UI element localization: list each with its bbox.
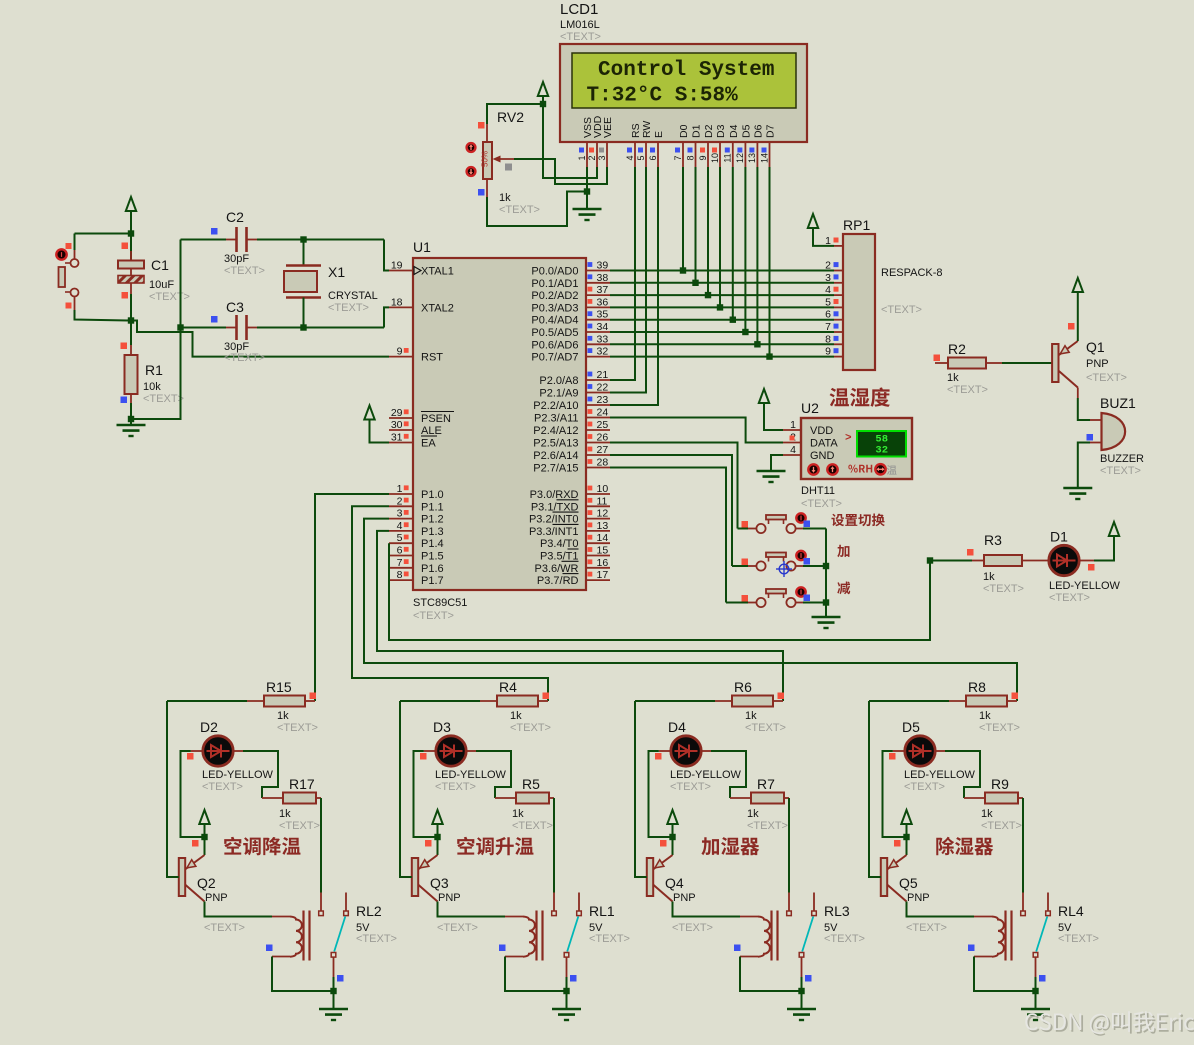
svg-text:1k: 1k	[947, 372, 959, 384]
svg-text:<TEXT>: <TEXT>	[979, 722, 1020, 734]
svg-text:<TEXT>: <TEXT>	[983, 583, 1024, 595]
svg-text:R5: R5	[522, 776, 540, 792]
svg-text:4: 4	[790, 444, 796, 456]
svg-text:LED-YELLOW: LED-YELLOW	[904, 769, 976, 781]
svg-text:4: 4	[825, 284, 831, 296]
svg-text:P0.1/AD1: P0.1/AD1	[531, 278, 578, 290]
svg-text:14: 14	[597, 532, 609, 544]
svg-text:<TEXT>: <TEXT>	[745, 722, 786, 734]
svg-text:<TEXT>: <TEXT>	[947, 384, 988, 396]
svg-text:T:32°C S:58%: T:32°C S:58%	[587, 85, 739, 108]
svg-text:5: 5	[397, 532, 403, 544]
svg-text:<TEXT>: <TEXT>	[670, 781, 711, 793]
svg-text:RV2: RV2	[497, 109, 524, 125]
svg-text:Q4: Q4	[665, 875, 684, 891]
svg-text:RESPACK-8: RESPACK-8	[881, 267, 943, 279]
svg-text:<TEXT>: <TEXT>	[801, 498, 842, 510]
svg-text:2: 2	[587, 155, 597, 160]
svg-text:<TEXT>: <TEXT>	[1086, 372, 1127, 384]
svg-text:C3: C3	[226, 299, 244, 315]
svg-text:P1.6: P1.6	[421, 563, 444, 575]
svg-text:D1: D1	[1050, 529, 1068, 545]
svg-text:LCD1: LCD1	[560, 1, 598, 18]
svg-text:LED-YELLOW: LED-YELLOW	[670, 769, 742, 781]
svg-text:Q5: Q5	[899, 875, 918, 891]
svg-text:36: 36	[597, 296, 609, 308]
svg-text:BUZZER: BUZZER	[1100, 453, 1144, 465]
svg-text:34: 34	[597, 321, 609, 333]
svg-text:12: 12	[597, 508, 609, 520]
svg-text:9: 9	[825, 346, 831, 358]
svg-text:<TEXT>: <TEXT>	[437, 922, 478, 934]
svg-text:13: 13	[597, 520, 609, 532]
svg-text:1k: 1k	[510, 710, 522, 722]
svg-text:<TEXT>: <TEXT>	[356, 933, 397, 945]
svg-text:PNP: PNP	[1086, 358, 1109, 370]
svg-text:10uF: 10uF	[149, 279, 174, 291]
svg-text:22: 22	[597, 382, 609, 394]
svg-text:CRYSTAL: CRYSTAL	[328, 290, 378, 302]
svg-text:LED-YELLOW: LED-YELLOW	[1049, 580, 1121, 592]
svg-text:PSEN: PSEN	[421, 413, 451, 425]
svg-text:PNP: PNP	[673, 892, 696, 904]
svg-text:<TEXT>: <TEXT>	[672, 922, 713, 934]
svg-text:D1: D1	[691, 124, 703, 138]
svg-text:<TEXT>: <TEXT>	[747, 820, 788, 832]
svg-text:U1: U1	[413, 239, 431, 255]
svg-text:5: 5	[636, 155, 646, 160]
svg-text:<TEXT>: <TEXT>	[1049, 592, 1090, 604]
svg-text:<TEXT>: <TEXT>	[824, 933, 865, 945]
svg-text:D4: D4	[728, 124, 740, 138]
svg-text:R6: R6	[734, 679, 752, 695]
svg-text:R9: R9	[991, 776, 1009, 792]
svg-text:P2.6/A14: P2.6/A14	[533, 450, 578, 462]
svg-text:30: 30	[391, 419, 403, 431]
svg-text:23: 23	[597, 394, 609, 406]
svg-text:D6: D6	[752, 124, 764, 138]
svg-text:Q3: Q3	[430, 875, 449, 891]
svg-text:DHT11: DHT11	[801, 485, 835, 497]
svg-text:<TEXT>: <TEXT>	[435, 781, 476, 793]
svg-text:P2.4/A12: P2.4/A12	[533, 425, 578, 437]
svg-text:>: >	[845, 433, 852, 445]
svg-text:<TEXT>: <TEXT>	[510, 722, 551, 734]
svg-text:28: 28	[597, 457, 609, 469]
svg-text:<TEXT>: <TEXT>	[202, 781, 243, 793]
svg-text:4: 4	[625, 155, 635, 160]
svg-text:14: 14	[759, 153, 769, 163]
svg-text:<TEXT>: <TEXT>	[1100, 465, 1141, 477]
svg-text:9: 9	[698, 155, 708, 160]
svg-text:2: 2	[397, 495, 403, 507]
svg-text:P3.4/T0: P3.4/T0	[540, 538, 579, 550]
svg-text:P3.5/T1: P3.5/T1	[540, 551, 579, 563]
svg-text:PNP: PNP	[205, 892, 228, 904]
svg-text:Q2: Q2	[197, 875, 216, 891]
svg-text:21: 21	[597, 369, 609, 381]
svg-text:<TEXT>: <TEXT>	[149, 291, 190, 303]
svg-text:R2: R2	[948, 341, 966, 357]
svg-text:3: 3	[397, 508, 403, 520]
svg-text:1k: 1k	[747, 808, 759, 820]
svg-text:6: 6	[825, 309, 831, 321]
svg-text:33: 33	[597, 333, 609, 345]
svg-text:6: 6	[397, 545, 403, 557]
svg-text:P0.7/AD7: P0.7/AD7	[531, 352, 578, 364]
svg-text:9: 9	[397, 346, 403, 358]
svg-text:X1: X1	[328, 264, 345, 280]
svg-text:P0.5/AD5: P0.5/AD5	[531, 327, 578, 339]
svg-text:D5: D5	[740, 124, 752, 138]
svg-text:R17: R17	[289, 776, 315, 792]
svg-text:4: 4	[397, 520, 403, 532]
svg-text:<TEXT>: <TEXT>	[512, 820, 553, 832]
svg-text:D4: D4	[668, 719, 686, 735]
svg-text:DATA: DATA	[810, 438, 838, 450]
svg-text:D3: D3	[433, 719, 451, 735]
svg-text:P0.2/AD2: P0.2/AD2	[531, 290, 578, 302]
svg-text:R7: R7	[757, 776, 775, 792]
svg-text:P2.7/A15: P2.7/A15	[533, 463, 578, 475]
svg-text:13: 13	[747, 153, 757, 163]
svg-text:R15: R15	[266, 679, 292, 695]
svg-text:P1.5: P1.5	[421, 551, 444, 563]
svg-text:8: 8	[825, 333, 831, 345]
svg-text:RL1: RL1	[589, 903, 615, 919]
svg-text:P0.3/AD3: P0.3/AD3	[531, 302, 578, 314]
svg-text:<TEXT>: <TEXT>	[413, 610, 454, 622]
svg-text:VEE: VEE	[602, 117, 614, 138]
svg-text:RL4: RL4	[1058, 903, 1084, 919]
svg-text:31: 31	[391, 432, 403, 444]
svg-text:P1.1: P1.1	[421, 501, 444, 513]
svg-text:E: E	[653, 131, 665, 138]
svg-text:5: 5	[825, 296, 831, 308]
svg-text:EA: EA	[421, 438, 436, 450]
svg-text:8: 8	[397, 569, 403, 581]
svg-text:P2.5/A13: P2.5/A13	[533, 438, 578, 450]
svg-text:50%: 50%	[481, 151, 490, 167]
svg-text:D5: D5	[902, 719, 920, 735]
svg-text:RW: RW	[641, 121, 653, 138]
svg-text:1k: 1k	[745, 710, 757, 722]
svg-text:P1.7: P1.7	[421, 575, 444, 587]
svg-text:10: 10	[597, 483, 609, 495]
svg-text:25: 25	[597, 419, 609, 431]
svg-text:LM016L: LM016L	[560, 19, 600, 31]
svg-text:24: 24	[597, 407, 609, 419]
svg-text:LED-YELLOW: LED-YELLOW	[435, 769, 507, 781]
svg-text:1k: 1k	[277, 710, 289, 722]
svg-text:P3.6/WR: P3.6/WR	[534, 563, 578, 575]
svg-text:ALE: ALE	[421, 425, 442, 437]
svg-text:26: 26	[597, 432, 609, 444]
svg-text:D0: D0	[678, 124, 690, 138]
svg-text:<TEXT>: <TEXT>	[499, 204, 540, 216]
svg-text:R4: R4	[499, 679, 517, 695]
svg-text:38: 38	[597, 272, 609, 284]
svg-text:1: 1	[577, 155, 587, 160]
svg-text:<TEXT>: <TEXT>	[906, 922, 947, 934]
svg-text:STC89C51: STC89C51	[413, 597, 467, 609]
svg-text:P3.7/RD: P3.7/RD	[537, 575, 579, 587]
svg-text:8: 8	[685, 155, 695, 160]
svg-text:D2: D2	[200, 719, 218, 735]
svg-text:D2: D2	[703, 124, 715, 138]
svg-text:P3.0/RXD: P3.0/RXD	[530, 489, 579, 501]
svg-text:<TEXT>: <TEXT>	[143, 393, 184, 405]
svg-text:Q1: Q1	[1086, 339, 1105, 355]
svg-text:12: 12	[735, 153, 745, 163]
svg-text:LED-YELLOW: LED-YELLOW	[202, 769, 274, 781]
svg-text:<TEXT>: <TEXT>	[981, 820, 1022, 832]
svg-text:R1: R1	[145, 362, 163, 378]
svg-text:P3.1/TXD: P3.1/TXD	[531, 501, 579, 513]
svg-text:XTAL1: XTAL1	[421, 266, 454, 278]
svg-text:37: 37	[597, 284, 609, 296]
svg-text:<TEXT>: <TEXT>	[277, 722, 318, 734]
svg-text:P3.3/INT1: P3.3/INT1	[529, 526, 579, 538]
svg-text:11: 11	[723, 153, 733, 162]
svg-text:GND: GND	[810, 450, 835, 462]
svg-text:BUZ1: BUZ1	[1100, 395, 1136, 411]
svg-text:1k: 1k	[981, 808, 993, 820]
svg-text:7: 7	[825, 321, 831, 333]
svg-text:RL3: RL3	[824, 903, 850, 919]
svg-text:11: 11	[597, 495, 608, 507]
svg-text:R8: R8	[968, 679, 986, 695]
svg-text:29: 29	[391, 407, 403, 419]
svg-text:1k: 1k	[983, 571, 995, 583]
svg-text:PNP: PNP	[907, 892, 930, 904]
svg-text:P1.0: P1.0	[421, 489, 444, 501]
svg-text:39: 39	[597, 260, 609, 272]
svg-text:<TEXT>: <TEXT>	[279, 820, 320, 832]
svg-text:P2.1/A9: P2.1/A9	[539, 388, 578, 400]
svg-text:C1: C1	[151, 257, 169, 273]
svg-text:6: 6	[648, 155, 658, 160]
svg-text:P2.0/A8: P2.0/A8	[539, 375, 578, 387]
svg-text:R3: R3	[984, 532, 1002, 548]
svg-text:3: 3	[597, 155, 607, 160]
svg-text:P0.6/AD6: P0.6/AD6	[531, 339, 578, 351]
svg-text:1k: 1k	[279, 808, 291, 820]
svg-text:P2.3/A11: P2.3/A11	[534, 413, 578, 425]
svg-text:PNP: PNP	[438, 892, 461, 904]
svg-text:<TEXT>: <TEXT>	[328, 302, 369, 314]
svg-text:<TEXT>: <TEXT>	[224, 265, 265, 277]
svg-text:1: 1	[397, 483, 403, 495]
svg-text:D3: D3	[715, 124, 727, 138]
svg-text:<TEXT>: <TEXT>	[1058, 933, 1099, 945]
svg-text:1k: 1k	[512, 808, 524, 820]
svg-text:18: 18	[391, 296, 403, 308]
svg-text:D7: D7	[765, 124, 777, 138]
svg-text:2: 2	[825, 260, 831, 272]
svg-text:U2: U2	[801, 400, 819, 416]
svg-text:RP1: RP1	[843, 217, 870, 233]
svg-text:<TEXT>: <TEXT>	[204, 922, 245, 934]
svg-text:7: 7	[397, 557, 403, 569]
svg-text:Control System: Control System	[598, 59, 774, 82]
svg-text:<TEXT>: <TEXT>	[224, 352, 265, 364]
svg-text:30pF: 30pF	[224, 253, 249, 265]
svg-text:32: 32	[875, 445, 888, 457]
svg-text:35: 35	[597, 309, 609, 321]
svg-text:<TEXT>: <TEXT>	[560, 31, 601, 43]
svg-text:P1.3: P1.3	[421, 526, 444, 538]
svg-text:P3.2/INT0: P3.2/INT0	[529, 514, 579, 526]
svg-text:10: 10	[710, 153, 720, 163]
svg-text:10k: 10k	[143, 381, 161, 393]
svg-text:<TEXT>: <TEXT>	[589, 933, 630, 945]
svg-text:P2.2/A10: P2.2/A10	[533, 400, 578, 412]
svg-text:RST: RST	[421, 352, 443, 364]
svg-text:<TEXT>: <TEXT>	[904, 781, 945, 793]
svg-text:1k: 1k	[499, 192, 511, 204]
svg-text:P1.4: P1.4	[421, 538, 444, 550]
svg-text:15: 15	[597, 545, 609, 557]
svg-text:3: 3	[825, 272, 831, 284]
svg-text:RL2: RL2	[356, 903, 382, 919]
svg-text:7: 7	[673, 155, 683, 160]
svg-text:19: 19	[391, 260, 403, 272]
svg-text:P0.4/AD4: P0.4/AD4	[531, 315, 578, 327]
svg-text:XTAL2: XTAL2	[421, 302, 454, 314]
svg-text:P0.0/AD0: P0.0/AD0	[531, 266, 578, 278]
svg-text:17: 17	[597, 569, 609, 581]
svg-text:VDD: VDD	[810, 425, 833, 437]
svg-text:16: 16	[597, 557, 609, 569]
svg-text:C2: C2	[226, 209, 244, 225]
svg-text:32: 32	[597, 346, 609, 358]
svg-text:1k: 1k	[979, 710, 991, 722]
svg-text:P1.2: P1.2	[421, 514, 444, 526]
svg-text:27: 27	[597, 444, 609, 456]
svg-text:<TEXT>: <TEXT>	[881, 304, 922, 316]
svg-text:1: 1	[790, 419, 796, 431]
